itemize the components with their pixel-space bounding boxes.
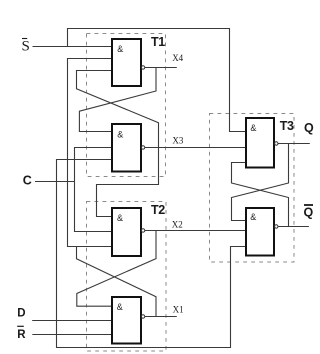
svg-text:&: & — [117, 44, 123, 54]
inverter bubble G3 — [141, 229, 144, 232]
nand gate G1 — [112, 39, 141, 86]
latch T1 dashed box — [87, 34, 166, 177]
wire C riser to G2 pin2 and G3 pin2 — [75, 148, 113, 232]
wire R riser to G2 pin3 and wrap-around bottom to G6 pin3 — [57, 160, 247, 348]
wire X3 output line to G5 pin2 — [145, 147, 247, 149]
latch T2 dashed box — [87, 202, 167, 352]
svg-text:&: & — [250, 123, 256, 133]
nand gate G6 — [246, 208, 274, 256]
inverter bubble G6 — [275, 225, 278, 228]
wire Q output — [278, 143, 310, 145]
wire X1 cross riser up to G3 feedback join — [77, 247, 157, 317]
svg-text:X4: X4 — [172, 53, 183, 63]
wire R input to G4 pin3 — [32, 334, 112, 336]
wire X1 feedback to G1 pin2 and G3 pin3 — [68, 59, 113, 247]
inverter bubble G1 — [141, 66, 144, 69]
svg-text:D: D — [17, 308, 25, 320]
svg-text:Q: Q — [304, 121, 314, 135]
svg-text:&: & — [117, 129, 123, 139]
wire X4 cross to G2 pin1 — [79, 68, 156, 132]
wire S wrap-around top to gate G5 pin1 — [68, 29, 247, 132]
inverter bubble G2 — [141, 146, 144, 149]
svg-text:R: R — [17, 329, 26, 341]
svg-text:&: & — [117, 213, 123, 223]
wire Qbar cross to G5 pin3 — [232, 163, 289, 227]
svg-text:C: C — [23, 174, 32, 188]
wire Qbar output — [278, 226, 309, 228]
inverter bubble G4 — [141, 315, 144, 318]
inverter bubble G5 — [275, 142, 278, 145]
wire X1 output stub — [145, 316, 177, 318]
wire Q cross to G6 pin1 — [232, 144, 289, 221]
svg-text:X3: X3 — [172, 136, 183, 146]
svg-text:T3: T3 — [280, 119, 294, 133]
latch T3 dashed box — [210, 114, 295, 263]
svg-text:S: S — [22, 39, 30, 55]
svg-text:X1: X1 — [173, 304, 184, 314]
nand gate G3 — [112, 208, 141, 256]
wire X3 cross to G1 pin3 then down to G3 pin1 — [77, 71, 159, 217]
wire D input to G4 pin2 — [32, 320, 112, 322]
svg-text:X2: X2 — [172, 220, 183, 230]
wire X2 cross to G4 pin1 — [77, 231, 156, 307]
wire C input — [35, 181, 75, 183]
nand gate G5 — [246, 118, 274, 168]
svg-text:T1: T1 — [151, 35, 165, 49]
wire X4 output stub — [145, 67, 177, 69]
svg-text:&: & — [117, 302, 123, 312]
svg-text:T2: T2 — [151, 203, 165, 217]
wire S input to gate G1 pin1 — [33, 46, 113, 48]
svg-text:&: & — [250, 212, 256, 222]
svg-text:Q: Q — [304, 206, 314, 220]
nand gate G2 — [112, 124, 141, 172]
nand gate G4 — [112, 297, 141, 344]
wire X2 output line to G6 pin2 — [145, 230, 247, 232]
